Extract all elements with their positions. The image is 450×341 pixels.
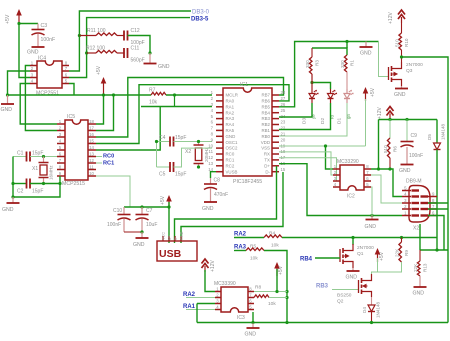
svg-text:RA3: RA3 xyxy=(234,245,247,251)
svg-text:RX: RX xyxy=(264,152,270,157)
svg-text:RB6: RB6 xyxy=(261,99,270,104)
capacitor C9 value xyxy=(409,153,423,159)
svg-text:15: 15 xyxy=(281,167,286,172)
IC1 pin 6 name xyxy=(226,122,235,127)
IC1 pin 23 xyxy=(272,120,286,125)
svg-text:GND: GND xyxy=(180,231,184,240)
svg-text:TX: TX xyxy=(264,158,270,163)
svg-text:GND: GND xyxy=(202,206,214,212)
svg-text:RB0: RB0 xyxy=(261,134,270,139)
capacitor C2 name xyxy=(17,189,24,195)
crystal X2 name xyxy=(185,149,191,155)
svg-text:VSS: VSS xyxy=(261,146,270,151)
wire D3 to RB4 xyxy=(279,103,312,117)
IC5 pin 11 xyxy=(88,165,96,170)
svg-text:+5V: +5V xyxy=(5,14,11,24)
capacitor C2 xyxy=(27,179,31,189)
svg-text:C1: C1 xyxy=(17,151,24,157)
+5V arrow IC3 xyxy=(274,262,280,276)
svg-text:R8: R8 xyxy=(255,285,261,291)
svg-text:2N7000: 2N7000 xyxy=(406,62,423,68)
capacitor C12 xyxy=(124,31,128,41)
svg-text:15pF: 15pF xyxy=(32,151,43,157)
wire VUSB to C8 xyxy=(211,172,217,178)
+12V supply label top xyxy=(388,12,394,24)
svg-text:C7: C7 xyxy=(146,208,153,214)
svg-text:510: 510 xyxy=(383,145,388,153)
svg-text:D1: D1 xyxy=(337,118,343,124)
IC1 pin 27 name xyxy=(261,99,270,104)
IC1 pin 9 name xyxy=(226,140,239,145)
svg-text:10: 10 xyxy=(208,143,213,148)
wire IC5 pin14 SI xyxy=(96,107,160,151)
wire R10 to Q3 drain xyxy=(401,50,403,62)
DB9 pin 7 pad xyxy=(421,208,429,210)
resistor R8 name xyxy=(255,285,261,291)
svg-text:GND: GND xyxy=(158,64,170,70)
ground on K-line xyxy=(366,216,379,220)
svg-text:RC0: RC0 xyxy=(103,154,114,160)
svg-text:PIC18F2455: PIC18F2455 xyxy=(233,179,262,185)
capacitor C12 name xyxy=(131,28,140,34)
svg-text:1N4148: 1N4148 xyxy=(376,301,381,318)
wire DB9 pin8 to right edge xyxy=(428,202,448,204)
wire R8 to RA3 net xyxy=(269,297,287,299)
wire Q1 drain xyxy=(352,238,354,246)
svg-text:C8: C8 xyxy=(214,178,221,184)
resistor R9 value xyxy=(395,248,400,257)
IC1 pin 17 xyxy=(272,155,286,160)
IC1 pin 13 name xyxy=(226,163,235,168)
svg-text:GND: GND xyxy=(365,224,377,230)
DB9 pin 5 pad xyxy=(412,189,420,191)
wire rail to D5 xyxy=(436,120,438,144)
junction CANL xyxy=(85,51,88,54)
wire R6 stem top xyxy=(389,120,391,139)
DB9 pin 1 pad xyxy=(412,214,420,216)
junction IC3 gnd rail xyxy=(251,321,254,324)
svg-text:12: 12 xyxy=(208,155,213,160)
svg-text:1N4148: 1N4148 xyxy=(441,123,446,140)
wire DB9 pin2 drop xyxy=(419,224,421,250)
svg-text:R3: R3 xyxy=(315,60,320,66)
IC1 pin 28 name xyxy=(261,93,270,98)
wire RA3 to R5 xyxy=(234,250,246,252)
svg-text:10: 10 xyxy=(89,171,94,176)
IC1 pin 25 xyxy=(272,108,286,113)
net label RC1 xyxy=(103,161,114,167)
wire C1 left xyxy=(13,156,27,158)
capacitor C7 value xyxy=(146,222,157,228)
IC1 pin 23 name xyxy=(261,122,270,127)
junction Q1 drain xyxy=(351,236,354,239)
+5V USB arrow xyxy=(166,195,172,209)
junction +5V node xyxy=(17,22,20,25)
DB9 pin 5 xyxy=(402,186,411,191)
junction R1 top xyxy=(345,40,348,43)
ground IC3 xyxy=(247,323,260,329)
wire IC2 pin7 to DB9 xyxy=(371,175,402,203)
IC5 pin 16 xyxy=(88,132,96,137)
IC1 pin 28 xyxy=(272,90,286,95)
wire 5V caps rail xyxy=(124,206,169,208)
junction LED rail xyxy=(310,81,313,84)
svg-text:RC0: RC0 xyxy=(226,152,235,157)
capacitor C4 name xyxy=(159,135,166,141)
wire R12 to C11 xyxy=(117,52,124,54)
wire 12V rail mid xyxy=(379,119,438,121)
IC1 pin 22 name xyxy=(261,128,270,133)
DB9 pin 3 pad xyxy=(412,202,420,204)
capacitor C11 xyxy=(124,48,128,58)
IC1 pin 27 xyxy=(272,96,286,101)
junction 5V arrow node xyxy=(275,290,278,293)
+5V arrow rail xyxy=(101,77,107,94)
IC1 pin 20 xyxy=(272,137,286,142)
wire RB4 to Q1 gate xyxy=(315,257,340,259)
transistor Q3 xyxy=(389,62,402,86)
svg-text:+12V: +12V xyxy=(210,260,216,272)
wire gnd leg to IC5 VSS xyxy=(13,184,60,198)
transistor Q1 xyxy=(340,244,353,268)
transistor Q2 xyxy=(359,274,372,297)
capacitor C8 value xyxy=(214,192,228,198)
svg-text:16: 16 xyxy=(89,132,94,137)
svg-text:10k: 10k xyxy=(149,100,158,106)
svg-text:+5V: +5V xyxy=(379,251,385,261)
+5V supply label xyxy=(5,14,11,24)
IC5 pin 2 xyxy=(57,126,65,131)
IC1 pin 17 name xyxy=(264,158,270,163)
IC1 pin 20 name xyxy=(261,140,270,145)
LED D1 xyxy=(344,89,354,103)
IC2 pin 2 xyxy=(333,170,340,175)
net label RA1 at IC3 xyxy=(183,304,196,310)
LED D1 color xyxy=(346,114,351,119)
IC1 pin 2 xyxy=(211,96,223,101)
resistor R7 name xyxy=(149,88,156,94)
wire ground rail xyxy=(8,94,152,96)
svg-text:DB9-M: DB9-M xyxy=(406,179,422,185)
capacitor C11 name xyxy=(131,46,140,52)
IC5 value MCP2515 xyxy=(62,181,85,187)
svg-text:X2: X2 xyxy=(185,149,191,155)
wire 12V to R10 xyxy=(401,23,403,33)
IC1 pin 12 name xyxy=(226,158,235,163)
wire R9 bottom to 5V node xyxy=(378,262,402,272)
junction osc riser xyxy=(58,182,61,185)
wire IC2 gnd drop xyxy=(371,187,372,216)
svg-text:MCP2515: MCP2515 xyxy=(62,181,85,187)
svg-text:VDD: VDD xyxy=(261,140,270,145)
wire rail to IC2 drop xyxy=(378,120,380,170)
wire Q3 gate link xyxy=(379,42,389,77)
svg-text:C10: C10 xyxy=(113,208,122,214)
svg-text:13: 13 xyxy=(89,152,94,157)
svg-text:C11: C11 xyxy=(131,46,140,52)
resistor R6 name xyxy=(393,146,398,152)
wire IC4 pin4 RXD to IC5 xyxy=(20,84,57,125)
svg-text:GND: GND xyxy=(226,134,236,139)
IC1 pin 9 xyxy=(211,137,223,142)
capacitor C12 value xyxy=(131,40,145,46)
junction R6 bottom xyxy=(388,167,391,170)
svg-text:RA3: RA3 xyxy=(226,116,235,121)
USB pin label D+ xyxy=(168,234,172,240)
svg-text:MC33290: MC33290 xyxy=(337,159,359,165)
junction caps gnd xyxy=(140,230,143,233)
ground crystal xyxy=(7,197,20,203)
svg-text:27: 27 xyxy=(281,96,286,101)
IC1 name xyxy=(240,82,248,88)
Q2 name xyxy=(337,299,344,305)
svg-text:GND: GND xyxy=(133,242,145,248)
ground Q1 xyxy=(347,268,360,271)
IC2 pin 4 xyxy=(333,182,340,187)
svg-text:12: 12 xyxy=(89,158,94,163)
capacitor C10 stem xyxy=(123,207,125,232)
diode D5 name xyxy=(427,134,432,140)
resistor R8 xyxy=(254,295,269,298)
svg-text:560pF: 560pF xyxy=(131,58,145,64)
capacitor C4 xyxy=(170,137,174,147)
DB9 name label xyxy=(413,226,419,232)
junction K-line ground xyxy=(370,214,373,217)
IC1 pin 16 xyxy=(272,161,286,166)
junction CANH xyxy=(78,34,81,37)
+5V label rail xyxy=(96,65,102,75)
svg-text:10uF: 10uF xyxy=(146,222,157,228)
svg-text:23: 23 xyxy=(281,120,286,125)
ground rail label xyxy=(1,107,13,113)
Q2 value xyxy=(337,293,352,299)
svg-text:D+: D+ xyxy=(264,163,270,168)
wire Q2 drain to D4 xyxy=(371,297,373,305)
capacitor C8 name xyxy=(214,178,221,184)
DB9 pin 1 xyxy=(402,211,411,216)
wire CANH to R11 xyxy=(79,35,96,37)
IC1 pin 18 name xyxy=(264,152,270,157)
resistor R13 value xyxy=(413,263,418,272)
crystal X2 value xyxy=(204,147,209,162)
transceiver IC3 body xyxy=(221,287,248,312)
net label RB3 xyxy=(316,284,329,290)
IC1 pin 25 name xyxy=(261,110,270,115)
wire RA2 to IC3 xyxy=(186,297,215,299)
junction C11 C12 ground xyxy=(148,51,151,54)
Q1 name xyxy=(357,251,364,257)
svg-text:RB3: RB3 xyxy=(261,116,270,121)
diode D4 name xyxy=(362,307,367,313)
resistor R10 name xyxy=(404,38,409,47)
resistor R10 xyxy=(399,33,402,50)
IC2 pin 6 xyxy=(364,176,371,181)
Q3 value xyxy=(406,62,423,68)
ground label below C3 xyxy=(27,50,39,56)
junction VDD IC2 drop xyxy=(324,144,327,147)
junction rail reset xyxy=(112,93,115,96)
junction Q3 drain xyxy=(400,55,403,58)
svg-text:20: 20 xyxy=(281,137,286,142)
wire 5V to Q2 source xyxy=(377,258,379,272)
IC2 pin 8 xyxy=(364,164,371,169)
svg-text:22K: 22K xyxy=(413,263,418,272)
resistor R6 xyxy=(387,138,390,158)
wire +5V down to IC4 pin3 xyxy=(19,24,30,78)
IC1 pin 14 xyxy=(208,167,223,172)
connector USB body xyxy=(157,241,197,261)
IC5 pin 17 xyxy=(88,126,96,131)
IC3 pin 5 xyxy=(248,305,254,310)
wire RA1 to IC3 xyxy=(186,309,215,311)
svg-text:330: 330 xyxy=(340,60,345,68)
DB9 pin 4 xyxy=(402,192,411,197)
resistor R1 value xyxy=(340,60,345,68)
capacitor C7 name xyxy=(146,208,153,214)
resistor R3 value xyxy=(305,60,310,68)
net label RA2 xyxy=(234,232,247,238)
crystal X1 name xyxy=(32,166,38,172)
svg-text:11: 11 xyxy=(89,165,94,170)
resistor R5 value xyxy=(250,256,258,262)
svg-text:RB4: RB4 xyxy=(261,110,270,115)
capacitor C10 xyxy=(118,215,131,221)
svg-text:IC1: IC1 xyxy=(240,82,248,88)
IC1 pin 18 xyxy=(272,149,286,154)
IC5 pin 4 xyxy=(57,139,65,144)
wire CANL to R12 xyxy=(87,52,96,54)
+5V USB label xyxy=(160,195,166,205)
svg-text:RA0: RA0 xyxy=(226,99,235,104)
svg-text:RA5: RA5 xyxy=(226,128,235,133)
wire C4 left xyxy=(157,141,171,143)
svg-text:100nF: 100nF xyxy=(409,153,423,159)
wire R9 stem xyxy=(401,238,403,243)
wire TX to K-line xyxy=(279,164,402,216)
IC1 pin 26 xyxy=(272,102,286,107)
wire DB9 pin6 to J1850 link xyxy=(428,216,444,251)
svg-text:Q2: Q2 xyxy=(337,299,344,305)
svg-text:D+: D+ xyxy=(168,234,172,240)
wire IC4 pin1 TXD to IC5 xyxy=(25,66,57,131)
net label RA2 at IC3 xyxy=(183,292,196,298)
+5V arrow near D1 xyxy=(363,87,369,101)
capacitor C4 value xyxy=(175,135,186,141)
svg-text:22K: 22K xyxy=(395,248,400,257)
wire Q3 drain to right edge xyxy=(402,57,449,323)
svg-text:D4: D4 xyxy=(362,307,367,313)
svg-text:13: 13 xyxy=(208,161,213,166)
+12V supply label mid xyxy=(377,107,383,119)
resistor R10 value xyxy=(395,39,400,47)
wire IC5 pin13 SCK stub xyxy=(96,156,102,158)
IC1 pin 2 name xyxy=(226,99,235,104)
net label DB3-0 xyxy=(192,10,210,16)
DB9 pin 9 xyxy=(428,192,437,197)
ground Q3 source xyxy=(395,86,408,89)
svg-text:15pF: 15pF xyxy=(175,172,186,178)
wire +5V to C3 xyxy=(19,23,38,25)
junction R8 node xyxy=(285,296,288,299)
svg-text:RA2: RA2 xyxy=(226,110,235,115)
capacitor C1 name xyxy=(17,151,24,157)
capacitor C10 value xyxy=(107,222,121,228)
wire C1 to IC5 OSC xyxy=(30,156,57,158)
IC5 pin 1 xyxy=(57,119,65,124)
svg-text:RC1: RC1 xyxy=(103,161,114,167)
svg-text:R9: R9 xyxy=(404,250,409,256)
svg-text:USB: USB xyxy=(159,248,182,260)
svg-text:+5V: +5V xyxy=(96,65,102,75)
capacitor C3 value xyxy=(41,37,56,43)
svg-text:VUSB: VUSB xyxy=(226,169,238,174)
IC3 value MC33390 xyxy=(214,281,236,287)
IC4 value MCP2551 xyxy=(36,91,59,97)
IC5 pin 3 xyxy=(57,132,65,137)
diode D4 value xyxy=(376,301,381,318)
+5V label near D1 xyxy=(370,87,376,97)
svg-text:+5V: +5V xyxy=(370,87,376,97)
resistor R11 name value xyxy=(87,28,106,34)
wire RB3 to Q2 gate xyxy=(332,289,359,291)
junction sense D5 xyxy=(435,248,438,251)
USB text xyxy=(159,248,182,260)
wire CANH to DB9-3 label xyxy=(79,11,191,36)
diode D5 value xyxy=(441,123,446,140)
svg-text:17: 17 xyxy=(89,126,94,131)
Q1 value xyxy=(357,245,374,251)
net label RA3 xyxy=(234,245,247,251)
LED D1 name xyxy=(337,118,343,124)
capacitor C7 stem xyxy=(141,207,143,232)
wire RB5 to Q3 gate trunk xyxy=(279,42,379,107)
wire IC5 pin15 SO loop xyxy=(96,85,289,144)
wire D+ to USB xyxy=(175,166,277,243)
IC2 pin 5 xyxy=(364,182,371,187)
svg-text:X2: X2 xyxy=(413,226,419,232)
svg-text:OSC1: OSC1 xyxy=(226,140,239,145)
svg-text:10k: 10k xyxy=(250,256,258,262)
svg-text:R10: R10 xyxy=(404,38,409,47)
svg-text:2N7000: 2N7000 xyxy=(357,245,374,251)
junction rail C9 xyxy=(405,118,408,121)
resistor R1 xyxy=(344,55,347,72)
capacitor C8 xyxy=(204,184,217,190)
resistor R4 value xyxy=(271,243,279,249)
resistor R13 xyxy=(417,261,420,276)
IC5 pin 7 xyxy=(57,158,65,163)
IC1 pin 8 name xyxy=(226,134,236,139)
ground label C11 C12 xyxy=(158,64,170,70)
svg-text:100nF: 100nF xyxy=(107,222,121,228)
svg-text:Q3: Q3 xyxy=(406,68,413,74)
wire D4 to rail xyxy=(371,312,373,323)
DB9 pin 6 xyxy=(428,211,437,216)
+5V supply arrow xyxy=(16,9,22,23)
wire R11 to C12 xyxy=(117,35,124,37)
svg-text:R6: R6 xyxy=(393,146,398,152)
IC1 pin 5 xyxy=(211,114,223,119)
crystal X2 xyxy=(194,142,204,168)
IC5 name xyxy=(67,114,75,120)
svg-text:X1: X1 xyxy=(32,166,38,172)
IC1 pin 3 name xyxy=(226,104,235,109)
svg-text:RB4: RB4 xyxy=(300,257,313,263)
DB9 pin 8 pad xyxy=(421,202,429,204)
svg-text:330: 330 xyxy=(305,60,310,68)
ground C11 C12 xyxy=(144,53,157,64)
resistor R3 name xyxy=(315,60,320,66)
